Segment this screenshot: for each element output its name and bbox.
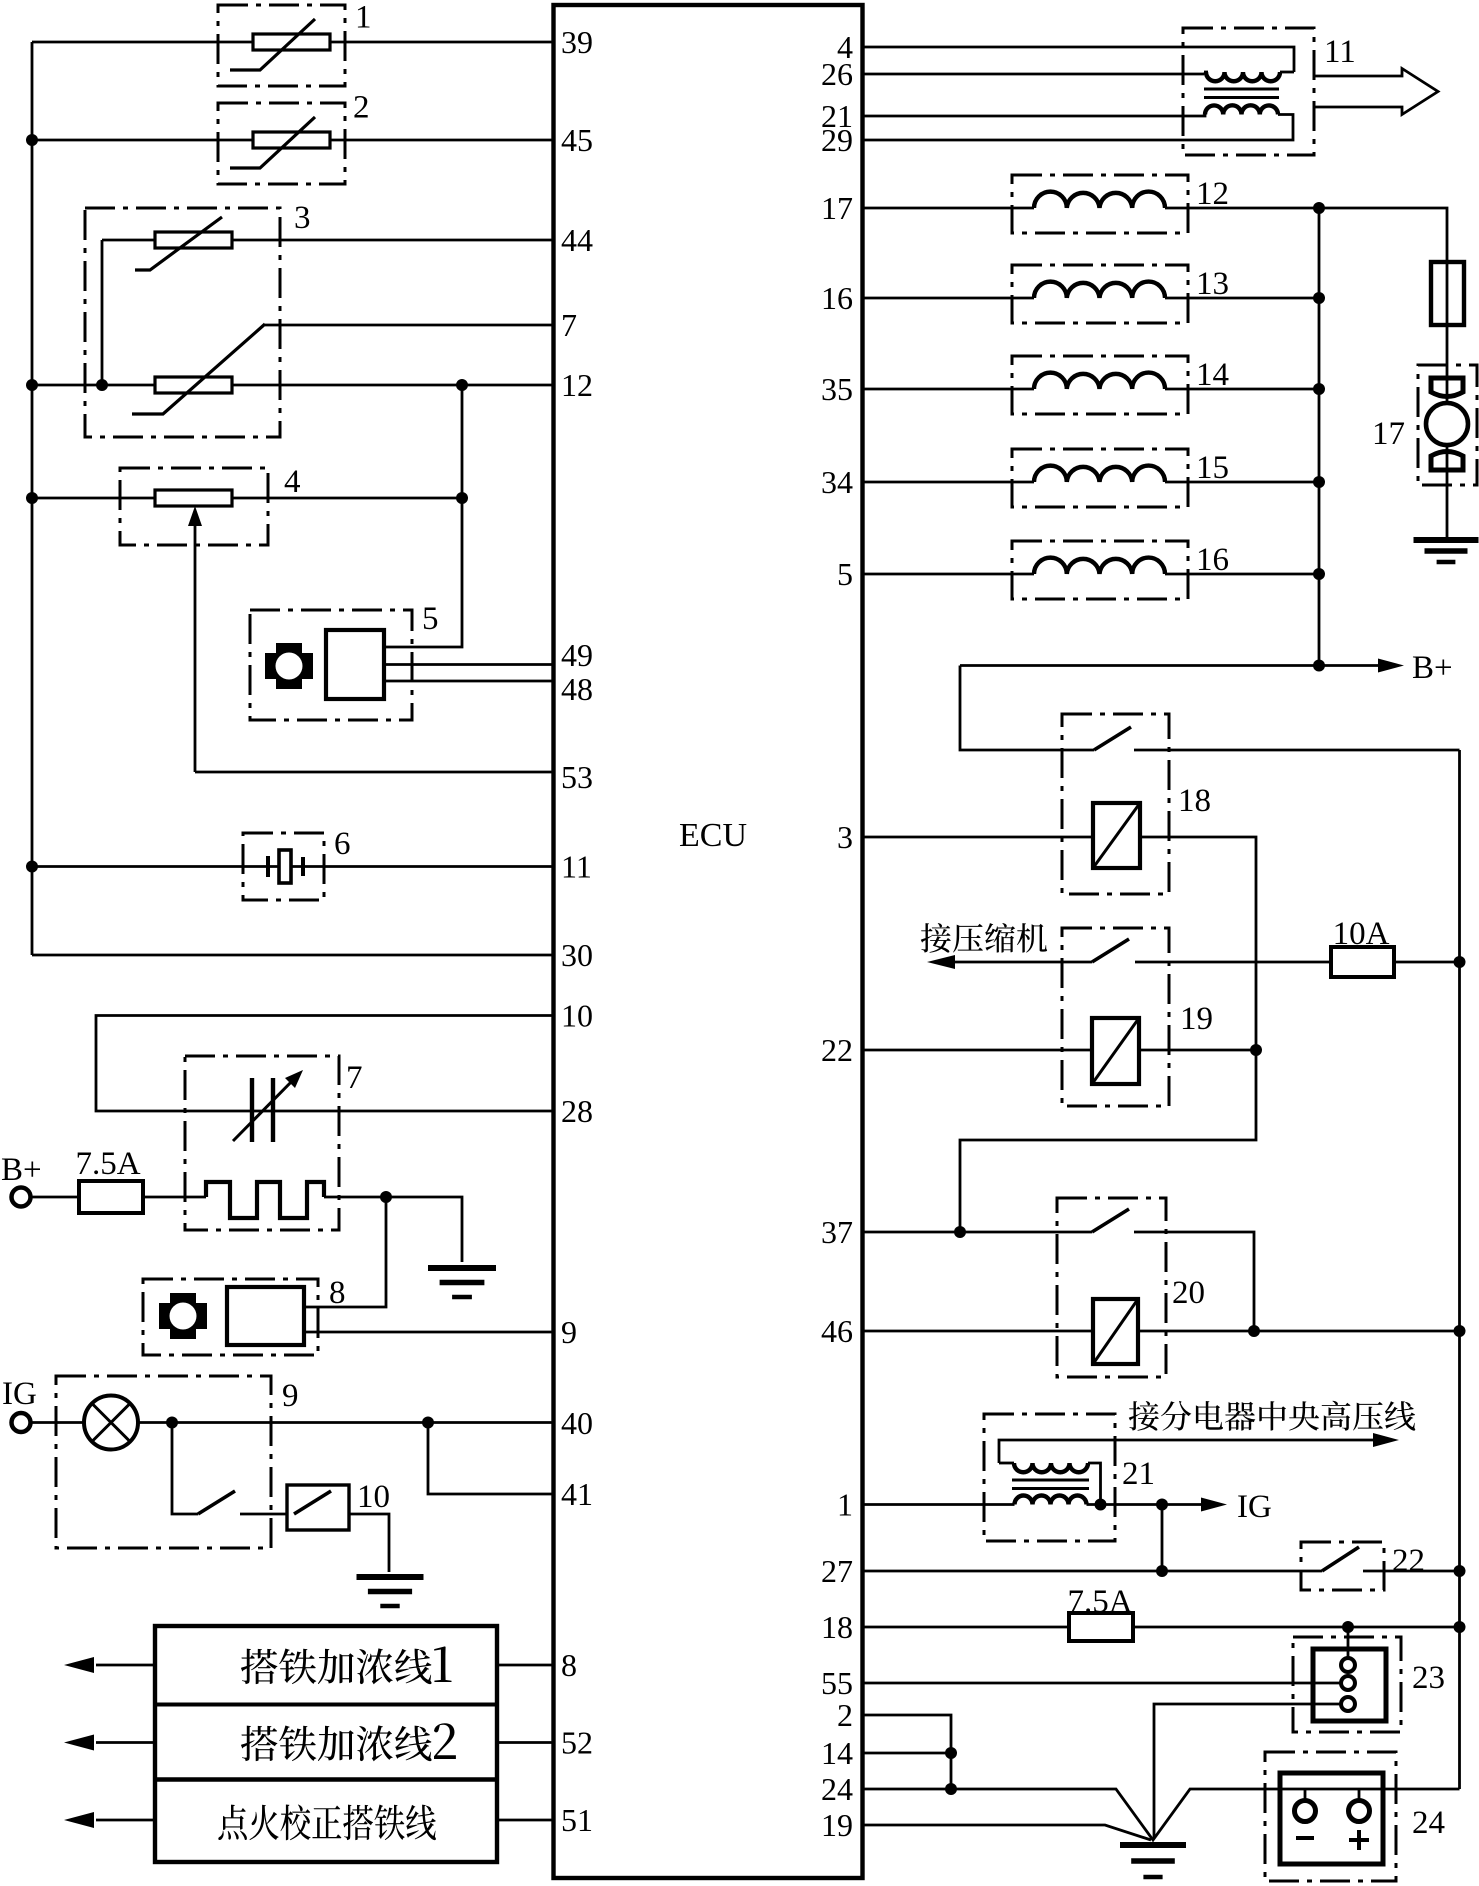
svg-text:27: 27 — [821, 1553, 853, 1589]
wire injector 14 to bus — [1165, 388, 1319, 391]
fuel pump upper pole — [1431, 378, 1463, 397]
svg-text:40: 40 — [561, 1405, 593, 1441]
wire pin 51 — [497, 1819, 552, 1822]
svg-text:15: 15 — [1196, 450, 1229, 486]
wire connector 23 to ground — [1154, 1704, 1341, 1838]
thermistor 3b — [155, 377, 232, 393]
svg-text:18: 18 — [1178, 783, 1211, 819]
svg-text:52: 52 — [561, 1725, 593, 1761]
driver block of 5 — [326, 630, 384, 699]
battery terminal stems — [1304, 1789, 1307, 1801]
svg-text:10: 10 — [357, 1479, 390, 1515]
wire pin 35 — [864, 388, 1034, 391]
idle stepper 5 box — [250, 610, 412, 720]
text ground enrich line 2 — [241, 1725, 432, 1761]
connector 23 pins — [1341, 1658, 1355, 1672]
svg-text:7: 7 — [561, 307, 577, 343]
svg-text:5: 5 — [422, 601, 439, 637]
right feed bus — [1318, 208, 1321, 666]
relay 18 coil — [1093, 803, 1140, 868]
text ignition correction ground line — [218, 1805, 436, 1841]
svg-text:46: 46 — [821, 1313, 853, 1349]
svg-text:8: 8 — [329, 1275, 346, 1311]
svg-text:34: 34 — [821, 464, 853, 500]
svg-text:2: 2 — [353, 90, 370, 126]
wire pin 29 — [864, 115, 1293, 141]
text to compressor — [921, 923, 1047, 953]
wire injector bus to fuel pump fuse — [1319, 208, 1447, 262]
svg-text:55: 55 — [821, 1665, 853, 1701]
arrow to compressor — [948, 961, 1092, 964]
ground of 7 — [428, 1265, 496, 1271]
wire pin 34 — [864, 481, 1034, 484]
fan relay 20 box — [1057, 1198, 1166, 1377]
svg-text:12: 12 — [1196, 176, 1229, 212]
svg-text:4: 4 — [284, 464, 301, 500]
relay 19 coil — [1092, 1018, 1139, 1084]
core lines of 21 — [1012, 1480, 1089, 1489]
left vertical bus wire — [31, 42, 34, 955]
svg-text:48: 48 — [561, 671, 593, 707]
svg-text:28: 28 — [561, 1093, 593, 1129]
svg-text:12: 12 — [561, 367, 593, 403]
fuel pump fuse — [1431, 262, 1464, 325]
svg-text:16: 16 — [821, 280, 853, 316]
ignition coil 21 box — [984, 1414, 1115, 1541]
knock sensor 6 element — [266, 856, 270, 877]
internal link wire of sensor 3 — [101, 240, 104, 385]
node on left bus — [26, 861, 38, 873]
wire pin 17 — [864, 207, 1034, 210]
svg-text:7.5A: 7.5A — [75, 1146, 140, 1182]
wire lamp node down to switch — [172, 1423, 198, 1515]
motor symbol of 8 — [159, 1293, 207, 1339]
svg-text:29: 29 — [821, 122, 853, 158]
node on left bus — [26, 134, 38, 146]
injector 14 box — [1012, 356, 1188, 414]
relay 18 switch blade — [1094, 727, 1131, 750]
wire pin 7 — [265, 324, 552, 327]
wire pin 16 — [864, 297, 1034, 300]
svg-text:13: 13 — [1196, 266, 1229, 302]
resistive track of 7 — [206, 1182, 324, 1218]
svg-text:14: 14 — [821, 1735, 853, 1771]
switch 22 blade — [1322, 1547, 1359, 1571]
node on left bus — [26, 492, 38, 504]
wire B+ to fuse — [31, 1196, 80, 1199]
primary coil of 11 — [1204, 71, 1208, 74]
main relay 18 box — [1062, 714, 1169, 894]
driver block of 8 — [227, 1287, 304, 1345]
wire relay 20 switch down — [1134, 1232, 1254, 1331]
svg-text:30: 30 — [561, 937, 593, 973]
wire pin 1 — [864, 1503, 1015, 1506]
svg-text:39: 39 — [561, 24, 593, 60]
diagnostic connector 23 box — [1293, 1637, 1401, 1732]
svg-text:16: 16 — [1196, 542, 1229, 578]
wire node to module 8 — [304, 1197, 386, 1307]
wire pin 45 — [32, 139, 552, 142]
svg-text:19: 19 — [821, 1807, 853, 1843]
thermistor 2 — [253, 132, 330, 148]
wire pin 40 — [31, 1421, 552, 1424]
svg-text:1: 1 — [837, 1487, 853, 1523]
potentiometer 4 — [155, 490, 232, 506]
VSS 11 box — [1183, 28, 1314, 155]
node on left bus — [26, 379, 38, 391]
primary coil of 21 — [999, 1462, 1014, 1465]
right power rail — [1458, 750, 1461, 1789]
wire switch 22 to rail — [1363, 1570, 1460, 1573]
fuel pump motor circle — [1426, 403, 1468, 445]
battery terminal plus — [1349, 1801, 1370, 1822]
svg-text:17: 17 — [821, 190, 853, 226]
svg-text:9: 9 — [561, 1314, 577, 1350]
potentiometer 4 box — [120, 468, 268, 545]
ground of 10 — [357, 1574, 424, 1580]
svg-text:11: 11 — [561, 849, 592, 885]
IG output arrow — [1201, 1498, 1227, 1512]
output arrow of 11 — [1314, 69, 1438, 115]
link wire pin12 to sensor4 wire — [461, 385, 464, 498]
svg-text:3: 3 — [294, 200, 311, 236]
svg-text:49: 49 — [561, 637, 593, 673]
svg-text:35: 35 — [821, 371, 853, 407]
wire pin 5 — [864, 573, 1034, 576]
svg-text:37: 37 — [821, 1214, 853, 1250]
svg-text:6: 6 — [334, 826, 351, 862]
svg-text:22: 22 — [821, 1032, 853, 1068]
row separator 1 — [155, 1703, 497, 1707]
svg-text:9: 9 — [282, 1378, 299, 1414]
wire pin 21 — [864, 115, 1205, 117]
motor symbol of 5 — [265, 643, 313, 689]
sensor 3 box — [85, 208, 280, 437]
injector 13 coil — [1034, 282, 1165, 298]
svg-text:26: 26 — [821, 56, 853, 92]
wire pin 48 — [384, 680, 552, 683]
wire pin 14 — [864, 1752, 951, 1755]
wire pin 24 — [864, 1789, 1460, 1840]
wire relay chain 19 to 20 — [960, 1050, 1256, 1232]
svg-text:44: 44 — [561, 222, 593, 258]
injector 16 box — [1012, 541, 1188, 599]
air flow meter 7 box — [185, 1056, 339, 1230]
diagnostic switch 10 box — [287, 1485, 349, 1530]
svg-text:51: 51 — [561, 1802, 593, 1838]
wire pin 3 through relay 18 coil — [864, 837, 1256, 1050]
wire from 5 to sensor4 node — [384, 498, 462, 647]
wire 10 to ground — [349, 1514, 389, 1572]
wiper arrow of potentiometer 4 — [194, 520, 197, 772]
arrow out row1 — [96, 1664, 155, 1667]
wire pin 11 — [32, 865, 552, 868]
core lines of 11 — [1204, 89, 1279, 98]
wire relay 19 switch to fuse 10A — [1135, 961, 1331, 964]
svg-text:14: 14 — [1196, 357, 1229, 393]
battery 24 box — [1265, 1752, 1396, 1881]
wire pin 52 — [497, 1741, 552, 1744]
injector 12 coil — [1034, 192, 1165, 208]
svg-text:ECU: ECU — [679, 817, 747, 854]
wire pin 4 — [864, 47, 1294, 72]
wire pin 30 — [32, 954, 552, 957]
thermistor sensor 2 box — [218, 103, 345, 184]
wire pin 12 — [32, 384, 552, 387]
svg-text:B+: B+ — [1, 1152, 42, 1188]
svg-text:19: 19 — [1180, 1001, 1213, 1037]
knock sensor 6 box — [243, 833, 324, 900]
injector 15 box — [1012, 449, 1188, 507]
wire relay 18 switch to right rail — [1134, 749, 1460, 752]
svg-text:IG: IG — [1237, 1489, 1272, 1525]
ground of fuel pump — [1414, 537, 1479, 543]
svg-text:45: 45 — [561, 122, 593, 158]
svg-text:17: 17 — [1372, 416, 1405, 452]
secondary coil of 21 — [1015, 1496, 1087, 1505]
svg-text:8: 8 — [561, 1647, 577, 1683]
svg-text:20: 20 — [1172, 1275, 1205, 1311]
wire pin 55 — [864, 1682, 1341, 1685]
row separator 2 — [155, 1777, 497, 1781]
svg-text:3: 3 — [837, 819, 853, 855]
svg-text:2: 2 — [837, 1697, 853, 1733]
wire injector 13 to bus — [1165, 297, 1319, 300]
wire fuse 10A to rail — [1394, 961, 1460, 964]
wire track to ground — [324, 1197, 462, 1262]
svg-text:7: 7 — [346, 1060, 363, 1096]
wire switch to box 10 — [240, 1513, 287, 1516]
switch blade of 10 — [294, 1491, 331, 1514]
arrow out row3 — [96, 1819, 155, 1822]
injector 14 coil — [1034, 373, 1165, 389]
warning lamp of 9 — [84, 1396, 138, 1450]
svg-text:5: 5 — [837, 556, 853, 592]
svg-text:24: 24 — [821, 1771, 853, 1807]
svg-text:1: 1 — [355, 0, 372, 36]
svg-text:10: 10 — [561, 998, 593, 1034]
arrow out row2 — [96, 1741, 155, 1744]
wire pin 44 — [102, 239, 552, 242]
wire injector 16 to bus — [1165, 573, 1319, 576]
connector 23 body — [1313, 1649, 1386, 1721]
svg-text:24: 24 — [1412, 1805, 1445, 1841]
thermistor 3a — [155, 232, 232, 248]
wire sensor 4 — [32, 497, 462, 500]
wire pin 37 — [864, 1231, 1092, 1234]
wire pin 8 — [497, 1664, 552, 1667]
wire pin 46 through relay 20 coil — [864, 1330, 1460, 1333]
battery 24 body — [1280, 1773, 1383, 1864]
wire pin 18 — [864, 1626, 1460, 1629]
fuel pump lower pole — [1431, 452, 1463, 471]
relay 20 switch blade — [1092, 1209, 1129, 1232]
battery terminal minus — [1295, 1801, 1316, 1822]
AC relay 19 box — [1062, 928, 1169, 1106]
HT output arrow of 21 — [999, 1440, 1378, 1463]
injector 12 box — [1012, 175, 1188, 233]
wire pin 27 — [864, 1570, 1322, 1573]
switch blade of 9 — [198, 1491, 235, 1514]
svg-text:B+: B+ — [1412, 650, 1453, 686]
ISC module 8 box — [143, 1279, 318, 1355]
wire injector 15 to bus — [1165, 481, 1319, 484]
wire pin18 node to connector 23 — [1347, 1627, 1350, 1659]
plus sign — [1349, 1830, 1369, 1850]
text ground enrich line 1 — [241, 1648, 432, 1684]
wire pin 19 — [864, 1825, 1151, 1840]
wire pin 2 — [864, 1715, 951, 1789]
svg-text:11: 11 — [1324, 34, 1356, 70]
wire pin 53 — [195, 771, 552, 774]
svg-text:IG: IG — [2, 1376, 37, 1412]
svg-text:21: 21 — [1122, 1456, 1155, 1492]
wire pin 49 — [384, 663, 552, 666]
injector 16 coil — [1034, 558, 1165, 574]
main ground — [1120, 1842, 1186, 1848]
minus sign — [1296, 1836, 1314, 1840]
thermistor 1 — [253, 34, 330, 50]
svg-text:18: 18 — [821, 1609, 853, 1645]
B+ output line — [960, 664, 1385, 667]
fuel pump 17 box — [1418, 365, 1477, 485]
wire pin 10 to pin 28 loop — [96, 1016, 552, 1112]
svg-text:23: 23 — [1412, 1660, 1445, 1696]
wire fuse to track — [143, 1196, 206, 1199]
wire pin 22 through relay 19 coil — [864, 1049, 1256, 1052]
wire B+ line down to relay 18 switch — [960, 666, 1094, 751]
relay 19 switch blade — [1092, 939, 1129, 962]
fuel pump wire through — [1446, 365, 1449, 540]
ignition switch 22 box — [1301, 1542, 1384, 1590]
secondary coil of 11 — [1205, 105, 1278, 114]
wire injector 12 to bus — [1165, 207, 1319, 210]
wire pin 26 — [864, 73, 1204, 76]
indicator 9 box — [56, 1376, 271, 1548]
svg-text:22: 22 — [1392, 1543, 1425, 1579]
wire pin 9 — [304, 1331, 552, 1334]
wire pin 39 — [32, 41, 552, 44]
thermistor sensor 1 box — [218, 5, 345, 86]
ground wire box bottom-left — [155, 1626, 497, 1862]
injector 13 box — [1012, 265, 1188, 323]
wire pin 41 — [428, 1423, 552, 1495]
text to distributor HT line — [1129, 1401, 1415, 1431]
svg-text:41: 41 — [561, 1476, 593, 1512]
relay 20 coil — [1093, 1299, 1138, 1364]
ECU box — [554, 5, 863, 1878]
svg-text:53: 53 — [561, 759, 593, 795]
variable capacitor of 7 — [250, 1078, 254, 1142]
wire IG node down to pin 27 line — [1161, 1505, 1164, 1572]
injector 15 coil — [1034, 466, 1165, 482]
